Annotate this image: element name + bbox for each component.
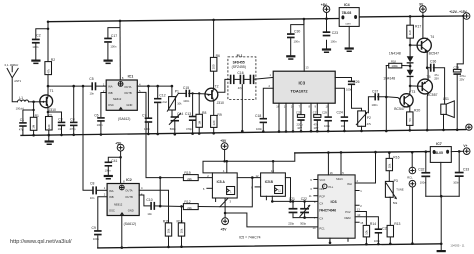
wire +5V rail	[295, 152, 431, 153]
svg-text:BC547: BC547	[429, 51, 439, 55]
wire bottom ground rail	[98, 244, 441, 248]
svg-text:100n: 100n	[331, 40, 337, 44]
capacitor C32	[418, 150, 430, 196]
speaker LS1	[441, 97, 455, 131]
capacitor C33	[451, 150, 469, 196]
resistor R1	[30, 101, 39, 137]
svg-text:PLL: PLL	[329, 185, 334, 189]
svg-text:OUTA: OUTA	[125, 189, 132, 193]
svg-text:104035 - 11: 104035 - 11	[450, 244, 465, 248]
svg-text:100k: 100k	[391, 64, 398, 68]
svg-text:com: com	[346, 23, 352, 26]
svg-text:PC1: PC1	[319, 227, 325, 231]
svg-text:VCO: VCO	[319, 178, 325, 182]
svg-text:C13: C13	[185, 112, 191, 116]
svg-text:(SA612): (SA612)	[124, 222, 136, 226]
svg-text:R19: R19	[184, 171, 190, 175]
svg-text:NE612: NE612	[114, 202, 123, 206]
svg-text:C10: C10	[146, 198, 152, 202]
svg-text:500p: 500p	[300, 221, 306, 225]
wire counter input from IC1 OUTB	[137, 92, 160, 206]
svg-text:NE612: NE612	[113, 97, 122, 101]
capacitor C17	[104, 20, 121, 60]
wire feedback vertical	[385, 66, 387, 132]
svg-text:BC557: BC557	[427, 93, 437, 97]
svg-text:1M: 1M	[32, 124, 36, 129]
capacitor C1	[19, 109, 35, 136]
IC3 TDA1072	[269, 18, 336, 104]
potentiometer P1	[167, 85, 182, 134]
svg-text:1N4148: 1N4148	[383, 76, 395, 80]
resistor R16	[386, 151, 400, 181]
svg-text:10k: 10k	[387, 163, 391, 168]
svg-text:+8V: +8V	[321, 3, 328, 7]
capacitor C12	[154, 86, 167, 135]
capacitor C6	[94, 93, 106, 136]
svg-text:GND: GND	[128, 209, 134, 213]
capacitor C26 (audio coupling)	[335, 78, 361, 111]
trimmer capacitor C14	[169, 112, 183, 136]
svg-text:C2: C2	[36, 33, 40, 37]
svg-text:220p: 220p	[288, 221, 294, 225]
svg-text:IC3: IC3	[299, 81, 306, 86]
svg-text:10: 10	[326, 104, 329, 108]
svg-text:47u: 47u	[314, 122, 319, 126]
svg-text:10n: 10n	[147, 212, 152, 216]
+8V supply node	[321, 3, 330, 31]
wire divider to IC6 signal	[225, 213, 318, 227]
svg-text:C5: C5	[89, 77, 93, 81]
svg-text:100n: 100n	[453, 181, 459, 185]
svg-text:3: 3	[230, 199, 232, 203]
svg-text:100n: 100n	[144, 127, 150, 131]
svg-text:100n: 100n	[183, 99, 189, 103]
svg-text:C27: C27	[313, 111, 318, 115]
flip-flop IC5.B	[251, 169, 285, 196]
9V supply node	[419, 3, 426, 39]
svg-text:R20: R20	[414, 108, 420, 112]
potentiometer P2 volume	[356, 111, 371, 132]
svg-text:4: 4	[141, 186, 143, 190]
svg-text:J310: J310	[217, 101, 224, 105]
svg-text:12: 12	[256, 174, 259, 178]
svg-text:http://www.qsl.net/va3iul/: http://www.qsl.net/va3iul/	[10, 239, 72, 245]
svg-text:P1: P1	[175, 89, 179, 93]
capacitor C23	[322, 31, 338, 53]
wire IC6 top pins	[328, 152, 341, 175]
wire IC2 pin3 to bottom rail	[121, 216, 123, 248]
capacitor C29	[322, 111, 332, 133]
svg-text:15: 15	[284, 104, 287, 108]
svg-text:R6: R6	[216, 54, 220, 58]
svg-text:220: 220	[47, 124, 51, 129]
resistor R20	[407, 108, 421, 131]
svg-text:R16: R16	[393, 155, 399, 159]
svg-text:13: 13	[306, 65, 309, 69]
svg-text:47k: 47k	[367, 122, 372, 126]
capacitor C20	[355, 217, 389, 246]
svg-text:C3: C3	[58, 118, 62, 122]
svg-text:14: 14	[313, 226, 316, 230]
svg-text:CX: CX	[319, 202, 323, 206]
svg-text:10n: 10n	[90, 196, 95, 200]
svg-text:C6: C6	[94, 113, 98, 117]
svg-text:T4: T4	[430, 35, 434, 39]
svg-text:470u: 470u	[460, 74, 466, 78]
svg-text:8: 8	[309, 104, 311, 108]
svg-text:100n: 100n	[93, 237, 99, 241]
transistor T2 J310	[205, 85, 224, 106]
svg-text:R9: R9	[217, 113, 221, 117]
resistor R18 100k	[386, 59, 410, 68]
resistor R19	[160, 171, 212, 181]
svg-text:10n: 10n	[58, 127, 63, 131]
svg-text:2: 2	[104, 193, 106, 197]
wire top supply bus right part	[359, 15, 463, 18]
trimmer capacitor C22	[300, 197, 310, 225]
svg-text:OSC: OSC	[109, 209, 115, 213]
svg-text:13: 13	[357, 207, 360, 211]
svg-text:47p: 47p	[19, 127, 24, 131]
svg-text:IC5 = 74HC74: IC5 = 74HC74	[239, 236, 261, 240]
wire IC1 OUTA	[137, 85, 172, 87]
flip-flop IC5.A	[203, 169, 237, 204]
capacitor C41	[104, 157, 121, 179]
svg-text:IC1: IC1	[128, 74, 134, 78]
resistor R9	[211, 101, 222, 135]
diode D2 1N4148	[383, 70, 413, 92]
svg-text:25V: 25V	[434, 77, 439, 81]
svg-text:ANT1: ANT1	[14, 79, 21, 83]
svg-text:TDA1072: TDA1072	[291, 88, 309, 93]
svg-text:INB: INB	[108, 91, 113, 95]
svg-text:R3: R3	[47, 113, 51, 117]
resistor R6	[210, 19, 220, 89]
svg-text:DEM: DEM	[345, 216, 352, 220]
op-amp IC1 NE612 mixer	[103, 74, 141, 121]
svg-text:100n: 100n	[374, 239, 380, 243]
test point RCL top	[407, 151, 416, 179]
svg-text:BC547: BC547	[394, 107, 404, 111]
svg-text:P3: P3	[394, 179, 398, 183]
svg-text:4: 4	[223, 169, 225, 173]
wire bus to IC1 pin8	[119, 21, 121, 80]
ground (C17)	[104, 60, 113, 65]
ground (bottom right)	[437, 244, 446, 252]
wire +12V rail down	[457, 16, 463, 64]
svg-text:2: 2	[269, 84, 271, 88]
capacitor C30 (bus decoupling)	[286, 19, 304, 60]
resistor R13	[387, 197, 400, 245]
svg-text:100uH: 100uH	[16, 106, 24, 110]
ground (main rail)	[45, 135, 54, 145]
svg-text:1: 1	[360, 189, 362, 193]
IC3 bottom pin wires	[279, 103, 328, 131]
potentiometer P3 TUNE	[385, 179, 403, 205]
svg-text:+12V...+15V: +12V...+15V	[449, 10, 467, 14]
wire T4/T5 emitter node	[426, 53, 429, 80]
wire FL1 to IC3	[254, 77, 273, 79]
svg-text:10k: 10k	[177, 102, 182, 106]
svg-text:(SA612): (SA612)	[118, 117, 130, 121]
svg-text:V+: V+	[463, 144, 467, 148]
svg-text:+5V: +5V	[115, 141, 122, 145]
svg-text:C30: C30	[294, 29, 300, 33]
svg-text:C1: C1	[20, 118, 24, 122]
+5V supply node (below IC5.A)	[221, 218, 229, 232]
svg-text:IC2: IC2	[126, 178, 132, 182]
svg-text:100n: 100n	[346, 87, 352, 91]
svg-text:IC4: IC4	[344, 3, 350, 7]
wire IC5.A Q to IC5.B	[237, 177, 260, 179]
svg-text:5: 5	[342, 171, 344, 175]
wire FL1 ground leg	[241, 85, 243, 132]
+5V supply node (IC2)	[115, 141, 124, 183]
svg-text:470p: 470p	[186, 127, 192, 131]
wire +5V counter feed	[203, 153, 295, 173]
svg-text:R17: R17	[415, 25, 421, 29]
svg-text:FL1: FL1	[237, 54, 243, 58]
svg-text:100n: 100n	[294, 40, 300, 44]
svg-text:OIN: OIN	[319, 187, 324, 191]
svg-text:T2: T2	[215, 85, 219, 89]
svg-text:7: 7	[299, 104, 301, 108]
svg-text:C33: C33	[463, 167, 469, 171]
svg-text:1: 1	[104, 186, 106, 190]
svg-text:R8: R8	[202, 111, 206, 115]
svg-text:C15: C15	[183, 86, 189, 90]
svg-text:100n: 100n	[324, 124, 330, 128]
capacitor C8	[90, 181, 107, 200]
svg-text:INA: INA	[108, 85, 113, 89]
svg-text:50k: 50k	[393, 201, 398, 205]
svg-text:C12: C12	[159, 94, 165, 98]
antenna ANT1	[5, 63, 22, 102]
svg-text:16: 16	[330, 171, 333, 175]
svg-text:OUTB: OUTB	[125, 195, 133, 199]
svg-text:10V: 10V	[314, 126, 319, 130]
capacitor C10	[146, 198, 155, 216]
svg-text:T1: T1	[50, 89, 54, 93]
svg-text:100n: 100n	[105, 168, 111, 172]
resistor R12	[183, 198, 228, 210]
transistor T4 BC547	[410, 35, 439, 55]
svg-text:C21: C21	[289, 197, 295, 201]
svg-text:PC2: PC2	[345, 210, 351, 214]
V+ terminal	[463, 144, 470, 154]
svg-text:1M: 1M	[197, 120, 201, 125]
wire T1 source node	[48, 107, 62, 116]
svg-text:R12: R12	[184, 200, 190, 204]
svg-text:10k: 10k	[365, 230, 369, 235]
capacitor C9	[92, 197, 108, 248]
wire IC6 bottom pin	[329, 238, 331, 243]
wire IC5.A bottom	[216, 198, 226, 218]
svg-text:IC5.B: IC5.B	[265, 180, 274, 184]
svg-text:C22: C22	[301, 197, 307, 201]
svg-text:78L08: 78L08	[342, 11, 352, 15]
svg-text:1k8: 1k8	[408, 30, 412, 35]
resistor R3	[46, 113, 53, 136]
svg-text:2: 2	[360, 204, 362, 208]
wire RF node to IC1	[48, 85, 106, 87]
svg-text:500p: 500p	[170, 127, 176, 131]
svg-text:C26: C26	[353, 80, 359, 84]
svg-text:R10: R10	[177, 219, 183, 223]
wire IC5.B Q feedback	[285, 178, 290, 202]
svg-text:R14: R14	[370, 222, 376, 226]
ceramic filter FL1 SFD455	[228, 54, 256, 133]
svg-text:56: 56	[408, 118, 412, 122]
svg-text:R18: R18	[391, 59, 396, 63]
svg-text:C29: C29	[322, 111, 327, 115]
wire IC2 OUTA to R11	[139, 190, 168, 223]
op-amp IC2 NE612 mixer	[104, 178, 143, 226]
svg-text:P2: P2	[367, 116, 371, 120]
capacitor C4	[70, 85, 78, 136]
svg-text:INH: INH	[347, 182, 352, 186]
wire IC2 OUTB to C10	[139, 195, 183, 207]
svg-text:100n: 100n	[420, 181, 426, 185]
svg-text:SIGN: SIGN	[336, 177, 343, 181]
svg-text:10V: 10V	[297, 126, 302, 130]
svg-text:(SFZ455): (SFZ455)	[232, 65, 246, 69]
svg-text:C9: C9	[92, 226, 96, 230]
IC6 74HCT4046 PLL	[309, 171, 364, 243]
svg-text:0,1..30MHz: 0,1..30MHz	[5, 63, 19, 67]
capacitor C24	[335, 88, 348, 132]
svg-text:100: 100	[212, 64, 216, 69]
test point RCL bottom	[409, 180, 416, 245]
svg-text:4: 4	[357, 179, 359, 183]
ground (C2)	[31, 60, 40, 65]
capacitor C18 (IC3 left)	[255, 88, 273, 133]
svg-text:C39: C39	[454, 66, 460, 70]
transistor T3 BC547	[394, 90, 415, 112]
capacitor C15 (series)	[177, 86, 205, 103]
svg-text:SFD455: SFD455	[233, 60, 245, 64]
svg-text:470p: 470p	[70, 127, 76, 131]
svg-text:220u: 220u	[297, 122, 303, 126]
capacitor C27 electrolytic	[313, 111, 321, 133]
svg-text:PCP: PCP	[319, 194, 325, 198]
svg-text:100n: 100n	[32, 45, 38, 49]
svg-text:10n: 10n	[341, 124, 346, 128]
resistor R10	[177, 206, 185, 248]
capacitor C37	[368, 89, 400, 112]
svg-text:10k: 10k	[180, 228, 184, 233]
capacitor C13	[185, 92, 196, 135]
resistor R8	[196, 92, 206, 135]
+5V supply node (counter)	[220, 139, 228, 162]
svg-text:+5V: +5V	[221, 228, 228, 232]
svg-text:15: 15	[360, 221, 363, 225]
svg-text:TUNE: TUNE	[396, 187, 404, 191]
svg-text:100n: 100n	[110, 45, 116, 49]
svg-text:OUTB: OUTB	[124, 91, 132, 95]
svg-text:IC7: IC7	[436, 142, 442, 146]
wire top supply bus left part	[48, 19, 339, 22]
chassis terminal	[466, 124, 472, 130]
voltage regulator IC7 78L05	[430, 142, 451, 196]
svg-text:GND: GND	[126, 103, 132, 107]
svg-text:10: 10	[271, 169, 274, 173]
svg-text:1N4148: 1N4148	[389, 52, 401, 56]
transistor T5 BC557	[410, 75, 437, 131]
capacitor C5	[89, 77, 96, 96]
wire IC6 VCOout right	[355, 152, 375, 183]
capacitor C21	[288, 197, 297, 225]
svg-text:16: 16	[276, 104, 279, 108]
wire T2 to FL1	[218, 79, 230, 92]
svg-text:R2: R2	[51, 58, 55, 62]
svg-text:C4: C4	[70, 118, 74, 122]
svg-text:RCL: RCL	[407, 175, 413, 179]
wire CX top	[272, 200, 318, 202]
svg-text:LS1: LS1	[443, 97, 449, 101]
resistor R17	[407, 15, 422, 56]
capacitor C3	[58, 112, 66, 136]
svg-text:C41: C41	[111, 159, 117, 163]
svg-text:R13: R13	[394, 222, 400, 226]
wire branch to IC2 input	[83, 86, 92, 190]
capacitor C36	[427, 60, 444, 105]
voltage regulator IC4 78L08	[339, 3, 359, 52]
svg-text:C25: C25	[296, 111, 301, 115]
svg-text:C37: C37	[372, 89, 378, 93]
svg-text:C17: C17	[111, 34, 117, 38]
svg-text:10k: 10k	[167, 228, 171, 233]
svg-text:OSC: OSC	[108, 103, 114, 107]
svg-text:L1: L1	[19, 96, 23, 100]
svg-text:74HCT4046: 74HCT4046	[319, 208, 336, 212]
resistor R14	[355, 212, 376, 246]
svg-text:C8: C8	[90, 181, 94, 185]
svg-text:6: 6	[314, 200, 316, 204]
svg-text:6: 6	[203, 187, 205, 191]
svg-text:T3: T3	[411, 90, 415, 94]
svg-text:C36: C36	[430, 60, 436, 64]
resistor R2	[45, 20, 55, 96]
diode D1 1N4148	[389, 52, 414, 70]
capacitor C25 electrolytic	[296, 111, 305, 133]
svg-text:100n: 100n	[256, 127, 262, 131]
svg-text:C32: C32	[418, 167, 424, 171]
inductor L1	[16, 96, 41, 111]
svg-text:C23: C23	[332, 31, 338, 35]
svg-text:14: 14	[291, 104, 294, 108]
svg-text:47k: 47k	[46, 68, 50, 73]
svg-text:9: 9	[310, 178, 312, 182]
wire IC7 ground bus	[426, 196, 459, 244]
svg-text:220: 220	[212, 120, 216, 125]
wire CX bottom	[293, 217, 318, 219]
svg-text:10: 10	[357, 213, 360, 217]
svg-text:C16: C16	[237, 71, 243, 75]
svg-text:100n: 100n	[97, 123, 103, 127]
svg-text:OUTA: OUTA	[124, 85, 131, 89]
svg-text:IC6: IC6	[331, 199, 338, 204]
wire IC5.B bottom pins	[266, 196, 272, 201]
resistor R11	[163, 219, 172, 248]
svg-text:R1: R1	[35, 114, 39, 118]
svg-text:9: 9	[315, 104, 317, 108]
capacitor C7	[142, 86, 152, 135]
svg-text:1: 1	[270, 73, 272, 77]
+12V supply node	[449, 10, 470, 19]
svg-text:100n: 100n	[372, 103, 378, 107]
svg-text:C14: C14	[177, 112, 183, 116]
